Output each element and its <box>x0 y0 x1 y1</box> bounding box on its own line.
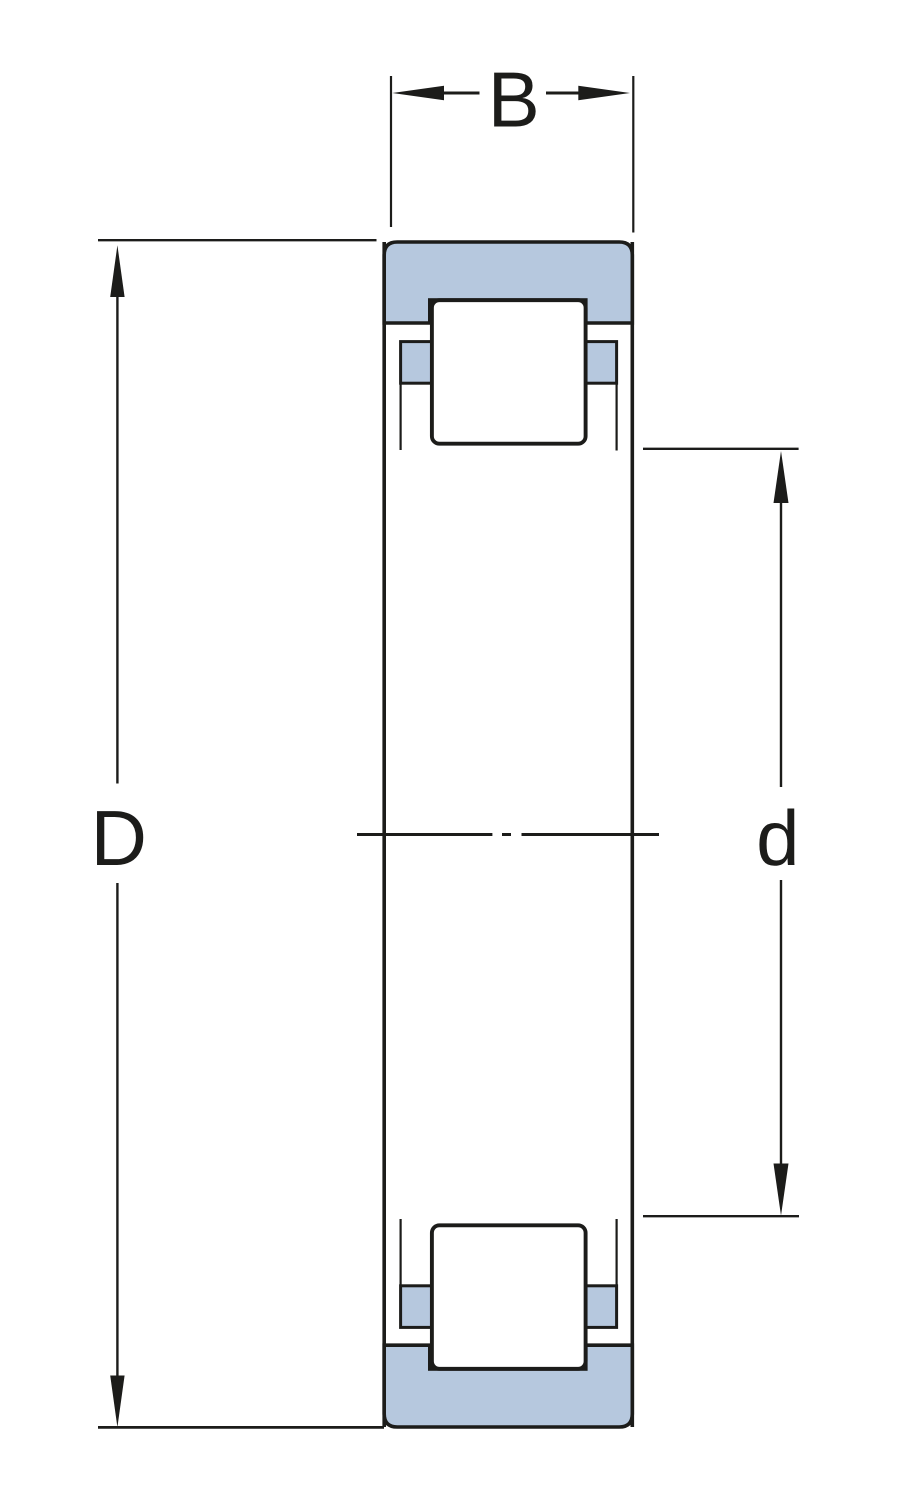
raceway notch bottom <box>428 1345 588 1371</box>
wire outer-ring left side surface <box>382 242 386 1427</box>
wire outer-ring right side surface <box>630 242 634 1427</box>
wire inner-ring land right (bottom) <box>615 1219 617 1286</box>
dimension line d w/ arrows <box>774 451 789 503</box>
wire inner-ring land left (bottom) <box>400 1219 402 1286</box>
roller bottom <box>432 1225 586 1369</box>
inner ring flange bottom-right <box>585 1286 617 1328</box>
extension line B left <box>390 76 392 227</box>
extension line B right <box>632 76 634 233</box>
extension line d top <box>643 448 799 450</box>
dimension line B left w/ arrow <box>392 86 444 100</box>
roller top <box>432 300 586 444</box>
svg-text:B: B <box>488 56 540 144</box>
svg-text:d: d <box>756 794 799 882</box>
dimension line B right w/ arrow <box>578 86 630 100</box>
extension line D top <box>98 239 377 241</box>
centre line axis <box>357 833 492 836</box>
outer ring bottom section <box>384 1345 632 1427</box>
raceway notch top <box>428 298 588 324</box>
outer ring top section <box>384 242 632 323</box>
dimension line D w/ arrows <box>110 245 124 297</box>
wire inner-ring land left (top) <box>400 383 402 450</box>
inner ring flange bottom-left <box>401 1286 433 1328</box>
wire inner-ring land right (top) <box>615 383 617 450</box>
svg-text:D: D <box>91 794 147 882</box>
inner ring flange top-right <box>585 342 617 384</box>
extension line D bottom <box>98 1426 384 1429</box>
extension line d bottom <box>643 1215 799 1217</box>
inner ring flange top-left <box>401 342 433 384</box>
